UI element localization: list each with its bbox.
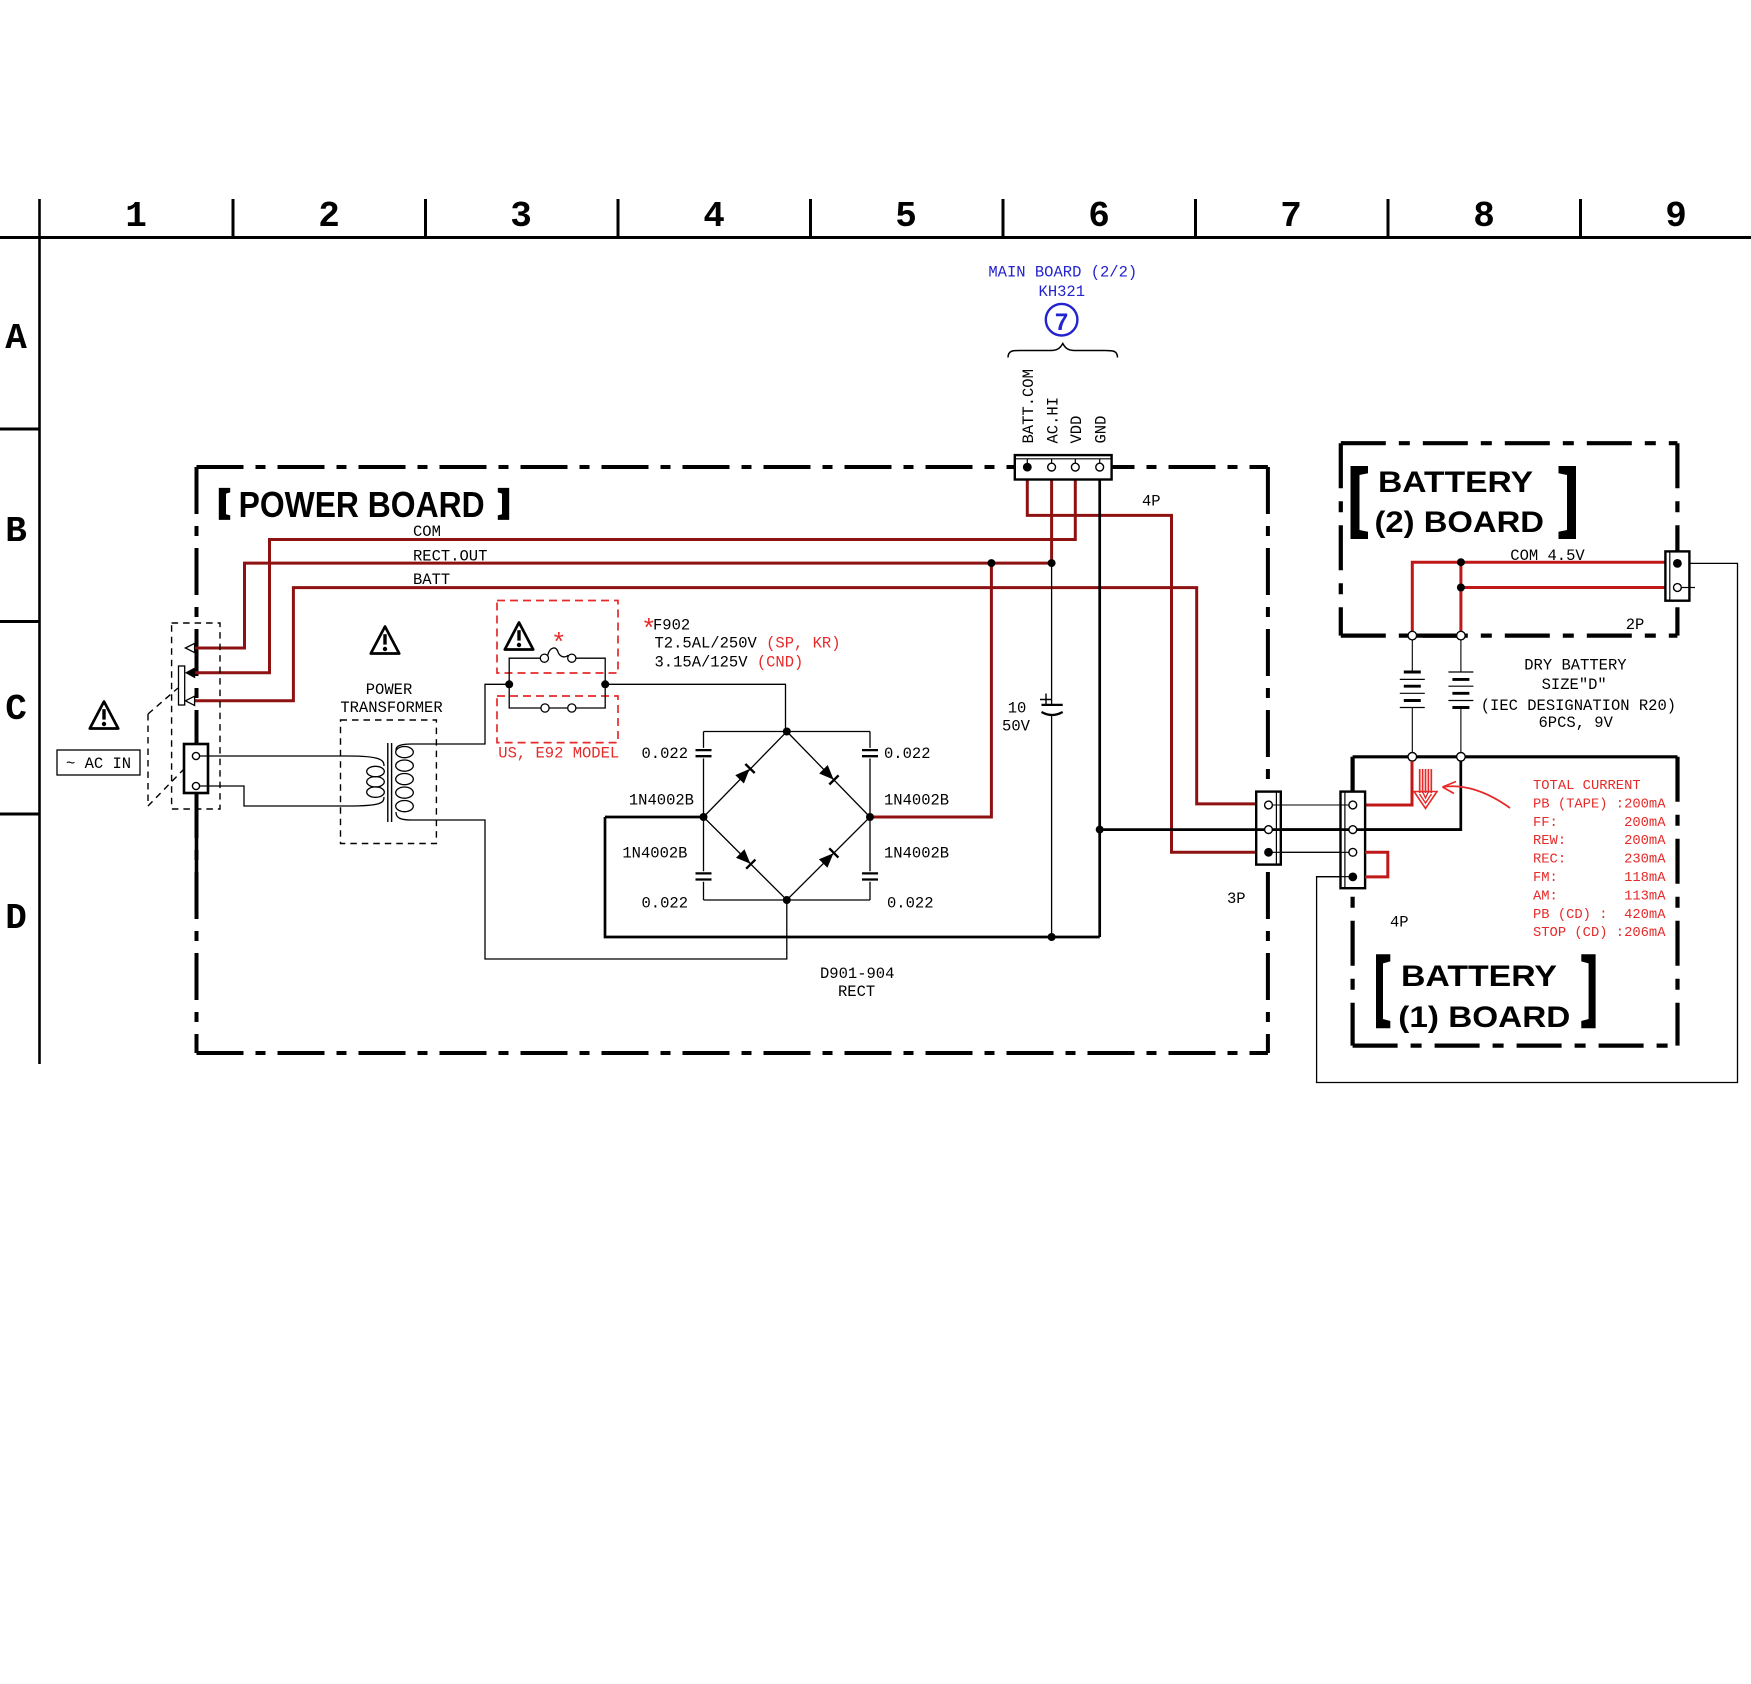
svg-text:3P: 3P (1227, 890, 1246, 908)
capacitor C 10uF plates (1042, 704, 1063, 706)
svg-text:KH321: KH321 (1039, 283, 1086, 301)
transformer primary coil (348, 756, 384, 806)
capacitor 0.022 bottom-right plates (862, 873, 878, 879)
plug outline dashed vertical (147, 714, 149, 806)
AC IN label box (57, 750, 140, 775)
svg-text:6PCS, 9V: 6PCS, 9V (1538, 714, 1613, 732)
wire GND vertical thick (1098, 479, 1101, 937)
transformer secondary coil (396, 744, 414, 820)
svg-text:4: 4 (703, 196, 725, 237)
2P pin1 filled (1673, 559, 1682, 568)
fuse red dashed box upper (497, 601, 618, 674)
AC inlet pin 1 (192, 752, 199, 759)
svg-text:COM 4.5V: COM 4.5V (1510, 547, 1585, 565)
svg-text:FF: 200mA: FF: 200mA (1533, 816, 1666, 831)
svg-text:1N4002B: 1N4002B (884, 845, 949, 863)
link wires 3P to 4P (1269, 805, 1353, 852)
connector bar strip (179, 666, 185, 705)
circle battery2 border left (1408, 631, 1417, 640)
wire COM dark red (195, 479, 1076, 673)
wire GND branch to 3P thick (1100, 761, 1461, 830)
AC inlet pin 2 (192, 782, 199, 789)
red wire battery1 to 4P pin1 (1357, 761, 1412, 805)
battery B2 stems (1460, 640, 1462, 753)
svg-text:8: 8 (1473, 196, 1495, 237)
svg-text:D901-904: D901-904 (820, 965, 894, 983)
plug outline dashed diagonal lower (148, 769, 184, 806)
brace under circle 7 (1008, 344, 1118, 358)
red total current arrowhead (1414, 792, 1437, 809)
svg-text:D: D (5, 898, 27, 939)
2P pin2 (1674, 584, 1682, 592)
4P inner line (1344, 792, 1346, 889)
svg-text:~ AC IN: ~ AC IN (66, 755, 131, 773)
fuse F902 terminals (540, 654, 548, 662)
junction bridge top (783, 728, 791, 736)
3P pin2 (1265, 826, 1273, 834)
triangle pin RECT.OUT open (185, 643, 194, 652)
svg-text:BATTERY: BATTERY (1401, 960, 1557, 993)
pin 3 (1071, 463, 1079, 471)
svg-text:0.022: 0.022 (887, 895, 934, 913)
pin 4 (1096, 463, 1104, 471)
svg-text:0.022: 0.022 (884, 745, 931, 763)
svg-text:2: 2 (318, 196, 340, 237)
junction GND branch (1096, 826, 1104, 834)
svg-text:C: C (5, 689, 27, 730)
circle battery1 rail left (1408, 753, 1417, 762)
BATTERY 2 title bracket left (1351, 466, 1369, 539)
thin loop wire 2P pin1 to 4P pin4 (1317, 563, 1738, 1082)
svg-text:FM: 118mA: FM: 118mA (1533, 871, 1666, 886)
svg-text:PB (CD) : 420mA: PB (CD) : 420mA (1533, 907, 1666, 923)
warning triangle mid board (371, 627, 399, 654)
junction battery2 wire2 (1457, 584, 1465, 592)
warning triangle near AC IN (90, 702, 118, 729)
3P connector box (1256, 792, 1281, 865)
svg-text:PB (TAPE) :200mA: PB (TAPE) :200mA (1533, 796, 1666, 812)
fuse F902 loop wiring (509, 658, 605, 708)
svg-text:AM: 113mA: AM: 113mA (1533, 889, 1666, 904)
transformer dashed box (341, 720, 437, 844)
capacitor 0.022 top-left plates (696, 750, 712, 756)
junction battery2 com (1457, 558, 1465, 566)
4P pin2 (1349, 826, 1357, 834)
svg-text:GND: GND (1092, 416, 1110, 444)
capacitor 0.022 bottom-left plates (696, 873, 712, 879)
svg-text:(IEC DESIGNATION R20): (IEC DESIGNATION R20) (1481, 697, 1676, 715)
connector inner line (1015, 458, 1112, 460)
wire bottom DC rail thick (605, 817, 1100, 937)
capacitor C 10uF plus sign (1040, 694, 1052, 706)
bridge square sides (704, 732, 871, 901)
bridge diamond (704, 732, 871, 901)
2P inner line (1669, 551, 1671, 600)
wire AC pin1 to transformer primary top (200, 755, 348, 757)
alternate fuse terminals US E92 (541, 704, 549, 712)
svg-text:BATT.COM: BATT.COM (1020, 369, 1038, 443)
wire secondary top to fuse (412, 684, 509, 744)
fuse F902 element s-curve (548, 648, 569, 657)
circle battery2 border right (1457, 631, 1466, 640)
svg-text:COM: COM (413, 523, 441, 541)
wire AC earth thick solid segment (195, 809, 199, 893)
3P inner line (1275, 792, 1277, 865)
svg-text:9: 9 (1665, 196, 1687, 237)
red total current arrow shafts (1420, 769, 1432, 793)
junction RECT.OUT cap node (1048, 559, 1056, 567)
svg-text:0.022: 0.022 (641, 895, 688, 913)
svg-text:TOTAL CURRENT: TOTAL CURRENT (1533, 779, 1641, 794)
wire cap top lead thin (1051, 563, 1053, 704)
svg-text:1: 1 (125, 196, 147, 237)
wire RECT.OUT dark red (194, 563, 1052, 648)
svg-text:US, E92 MODEL: US, E92 MODEL (498, 745, 619, 763)
BATTERY 1 top rail thick (1353, 755, 1678, 758)
ruler column numbers (125, 196, 1687, 237)
BATTERY 2 BOARD dashed border (1341, 443, 1678, 635)
POWER BOARD title bracket left (219, 488, 230, 520)
circle battery1 rail right (1457, 753, 1466, 762)
svg-text:RECT: RECT (838, 983, 875, 1001)
wire GND branch over connectors (1256, 828, 1461, 831)
svg-text:RECT.OUT: RECT.OUT (413, 548, 487, 566)
junction fuse left (505, 680, 513, 688)
diode D901 top-left (735, 764, 755, 784)
diode D902 top-right (819, 765, 839, 785)
svg-text:BATTERY: BATTERY (1378, 466, 1533, 499)
diode D903 bottom-left (736, 849, 756, 869)
battery2 red wire to 2P pin2 (1461, 562, 1674, 631)
pin 2 (1048, 463, 1056, 471)
circled 7 blue (1046, 304, 1078, 336)
wire fuse output to bridge top (605, 684, 785, 731)
junction bridge right (866, 813, 874, 821)
wire secondary bottom to bridge AC node (412, 820, 787, 959)
svg-text:MAIN BOARD (2/2): MAIN BOARD (2/2) (988, 264, 1137, 282)
ruler row letters (5, 318, 27, 939)
4P pin3 (1349, 848, 1357, 856)
4P pin4 filled (1348, 873, 1357, 882)
svg-text:TRANSFORMER: TRANSFORMER (340, 699, 442, 717)
svg-text:POWER: POWER (366, 681, 413, 699)
triangle pin COM filled (185, 667, 195, 678)
svg-text:4P: 4P (1390, 914, 1409, 932)
2P pin2 stub (1681, 587, 1695, 589)
thin wire into 4P pin4 (1317, 876, 1349, 878)
junction bridge bottom (783, 896, 791, 904)
BATTERY 1 title bracket left (1376, 954, 1390, 1028)
svg-text:3.15A/125V (CND): 3.15A/125V (CND) (655, 654, 804, 672)
svg-text:AC.HI: AC.HI (1044, 397, 1062, 444)
svg-text:5: 5 (895, 196, 917, 237)
ruler left vertical line (38, 199, 41, 1064)
AC inlet connector box (184, 744, 208, 793)
border solid segment between battery circles (1417, 633, 1457, 637)
svg-text:2P: 2P (1626, 616, 1645, 634)
ruler top horizontal line (0, 236, 1751, 239)
svg-text:VDD: VDD (1068, 416, 1086, 444)
junction RECT.OUT bridge branch (987, 559, 995, 567)
svg-text:3: 3 (510, 196, 532, 237)
ruler left ticks (0, 429, 40, 814)
POWER BOARD title bracket right (498, 488, 509, 520)
wire RECT.OUT to bridge plus node (870, 563, 991, 817)
svg-text:BATT: BATT (413, 571, 450, 589)
pin 1 filled (1023, 463, 1032, 472)
junction fuse right (601, 680, 609, 688)
3P pin3 filled (1264, 848, 1273, 857)
svg-text:REC: 230mA: REC: 230mA (1533, 853, 1666, 868)
svg-text:DRY BATTERY: DRY BATTERY (1524, 656, 1627, 674)
svg-text:1N4002B: 1N4002B (884, 792, 949, 810)
4P pin1 (1349, 801, 1357, 809)
BATTERY 2 title bracket right (1559, 466, 1577, 539)
ruler top ticks (233, 199, 1581, 238)
4P bottom connector box (1341, 792, 1366, 889)
svg-text:A: A (5, 318, 27, 359)
svg-text:7: 7 (1055, 309, 1068, 336)
pin stems (1027, 459, 1099, 463)
svg-text:1N4002B: 1N4002B (622, 845, 687, 863)
svg-text:7: 7 (1280, 196, 1302, 237)
battery B2 plates (1448, 672, 1473, 708)
svg-text:POWER BOARD: POWER BOARD (239, 484, 485, 525)
main board 4P connector box (1015, 455, 1112, 479)
svg-text:0.022: 0.022 (641, 745, 688, 763)
battery B1 plates (1400, 672, 1425, 708)
svg-text:T2.5AL/250V (SP, KR): T2.5AL/250V (SP, KR) (655, 635, 841, 653)
link wires 3P to 4P restored (1281, 805, 1349, 852)
wire bridge minus node stub thick (605, 816, 704, 819)
svg-text:50V: 50V (1002, 718, 1031, 736)
wire cap bottom lead thin (1051, 716, 1053, 937)
junction cap bottom on rail (1048, 933, 1056, 941)
plug outline dashed diagonal upper (148, 688, 178, 714)
wire RECT.OUT pin2 stem (1050, 479, 1053, 563)
svg-text:6: 6 (1088, 196, 1110, 237)
triangle pin BATT open (185, 696, 194, 705)
fuse red dashed box lower (497, 696, 618, 743)
BATTERY 1 title bracket right (1581, 954, 1595, 1028)
transformer core (388, 743, 392, 822)
left connector dashed box (172, 623, 220, 809)
svg-text:(1) BOARD: (1) BOARD (1398, 1001, 1570, 1034)
diode D904 bottom-right (819, 848, 839, 868)
svg-text:10: 10 (1008, 700, 1027, 718)
red jumper 4P pin3 to pin4 (1365, 852, 1388, 877)
warning triangle in fuse box (505, 623, 533, 650)
svg-text:1N4002B: 1N4002B (629, 792, 694, 810)
battery B1 stems (1411, 640, 1413, 753)
svg-text:SIZE"D": SIZE"D" (1542, 676, 1607, 694)
3P pin1 (1265, 801, 1273, 809)
junction bridge left (700, 813, 708, 821)
svg-text:F902: F902 (653, 617, 690, 635)
2P connector box (1665, 551, 1689, 600)
svg-text:STOP (CD) :206mA: STOP (CD) :206mA (1533, 925, 1666, 941)
wire BATT dark red (194, 588, 1262, 804)
svg-text:B: B (5, 511, 27, 552)
svg-text:(2) BOARD: (2) BOARD (1375, 506, 1545, 539)
svg-text:4P: 4P (1142, 493, 1161, 511)
svg-text:REW: 200mA: REW: 200mA (1533, 834, 1666, 849)
POWER BOARD dash-dot border box (197, 467, 1268, 1053)
wire BATT.COM dark red (1027, 479, 1262, 852)
wire AC pin2 to transformer primary bottom (200, 786, 348, 806)
red curved pointer arrow (1443, 786, 1510, 808)
battery2 red wire to 2P pin1 (1412, 562, 1673, 631)
capacitor 0.022 top-right plates (862, 750, 878, 756)
TOTAL CURRENT red table (1533, 779, 1666, 941)
BATTERY 1 BOARD dashed border (1353, 757, 1678, 1046)
